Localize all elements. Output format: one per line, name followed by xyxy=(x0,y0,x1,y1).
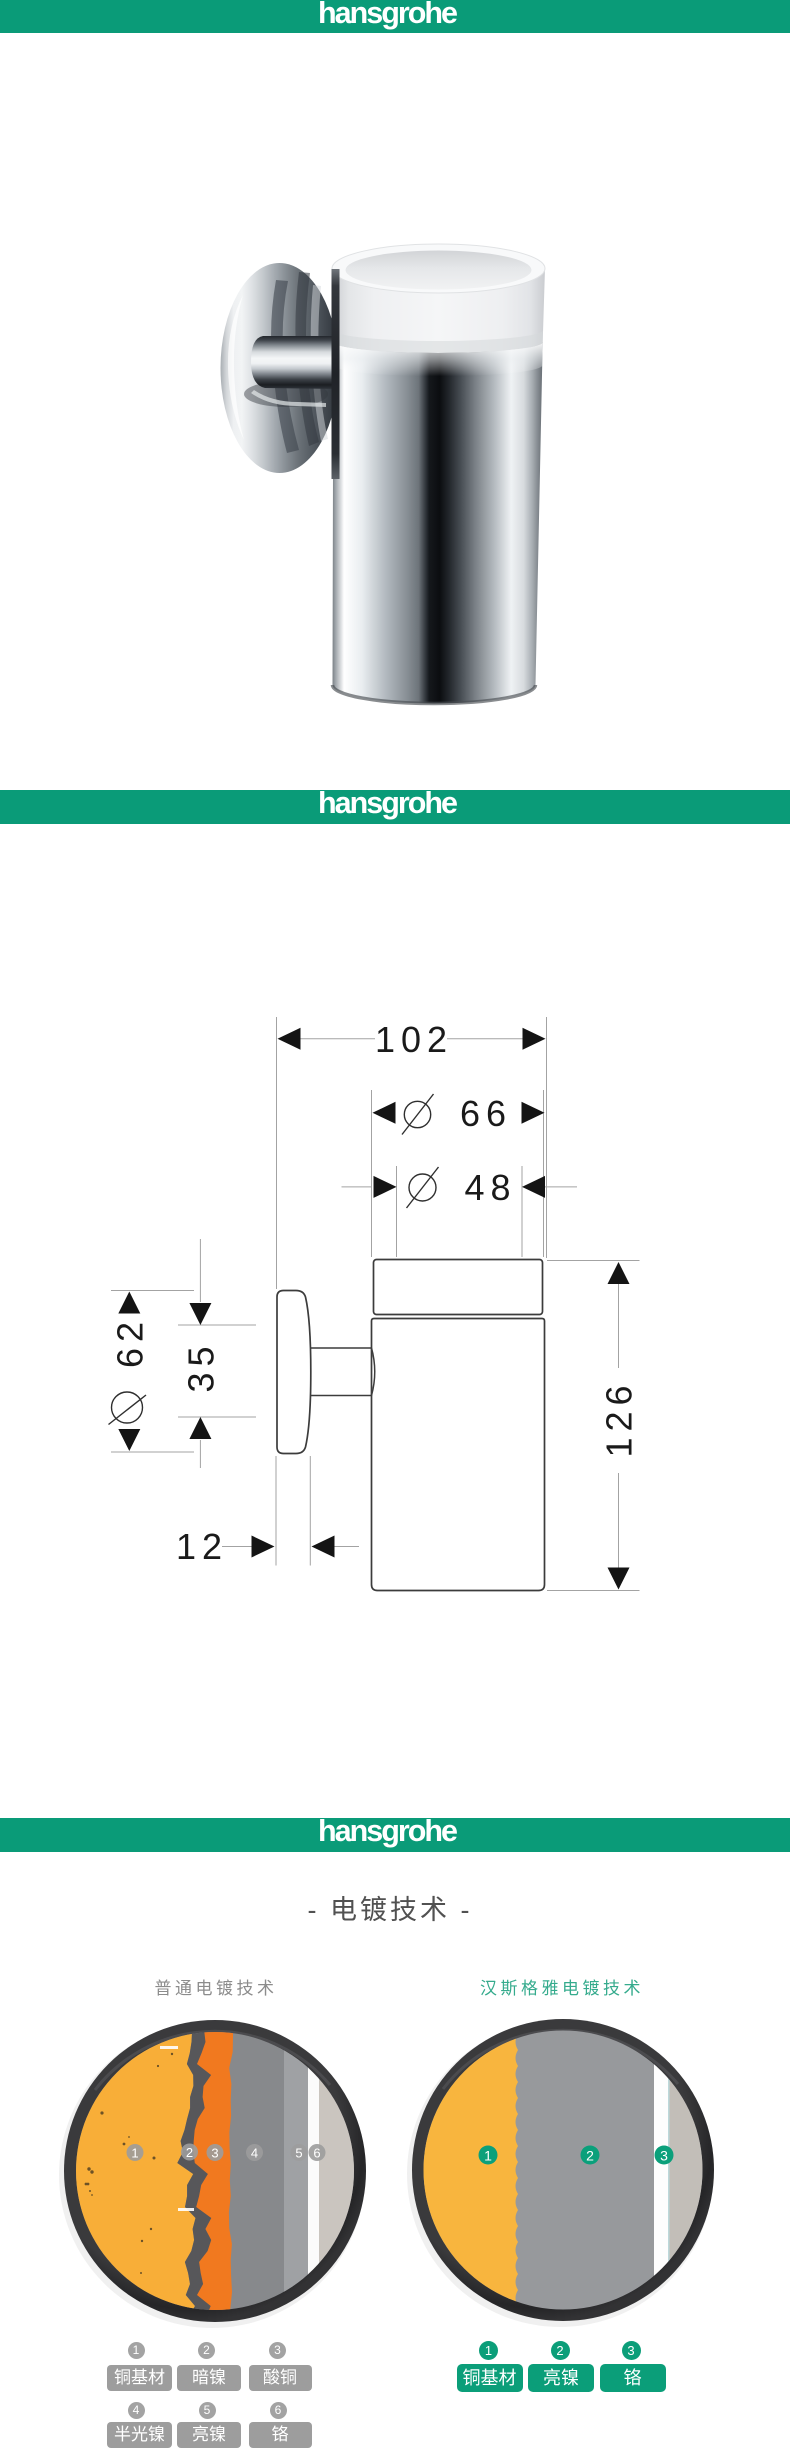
126 dim line upper xyxy=(618,1284,620,1368)
12 arrow pointing right xyxy=(252,1536,275,1558)
white chrome band xyxy=(654,2019,668,2321)
35 tick top xyxy=(178,1324,256,1326)
48 dim line left xyxy=(342,1186,372,1188)
gray label 暗镍 xyxy=(177,2365,241,2391)
gray label 酸铜 xyxy=(249,2365,312,2391)
102 arrow left xyxy=(278,1028,301,1050)
disc bright sliver xyxy=(311,285,328,441)
legend left group xyxy=(0,2342,790,2452)
green badge 2 xyxy=(581,2146,600,2165)
cup body outline xyxy=(372,1319,545,1591)
badge 6 xyxy=(309,2144,326,2161)
gray badge 2 xyxy=(198,2342,215,2359)
svg-text:12: 12 xyxy=(176,1526,228,1567)
66 arrow right xyxy=(522,1102,545,1124)
66 arrow left xyxy=(373,1102,396,1124)
layer 5 lighter gray xyxy=(284,2020,309,2322)
126 extension bottom xyxy=(547,1590,640,1592)
mounting arm xyxy=(251,336,340,389)
layer 1 copper base (amber) xyxy=(65,2020,196,2320)
white dash mid xyxy=(178,2208,194,2211)
48 extension line right xyxy=(521,1166,523,1257)
svg-text:126: 126 xyxy=(599,1379,640,1457)
right subtitle xyxy=(412,1974,712,1999)
12 dim line right xyxy=(334,1546,359,1548)
base gray layer xyxy=(413,2019,714,2321)
gray badge 3 xyxy=(269,2342,286,2359)
126 arrow up xyxy=(608,1262,630,1284)
green label 亮镍 xyxy=(528,2364,594,2392)
35 arrow up xyxy=(189,1417,211,1439)
right circle soft shadow xyxy=(407,2021,713,2327)
126 extension top xyxy=(547,1260,640,1262)
layer 6b beige xyxy=(319,2020,355,2322)
svg-text:1: 1 xyxy=(484,2147,492,2163)
badge 4 xyxy=(246,2144,263,2161)
126 arrow down xyxy=(608,1568,630,1590)
right circle: hansgrohe plating xyxy=(400,2005,714,2335)
48 dim line right xyxy=(545,1186,577,1188)
layer 4 base gray xyxy=(65,2020,365,2322)
copper base amber xyxy=(400,2005,518,2335)
arm top line xyxy=(311,1347,372,1349)
gray badge 6 xyxy=(270,2402,287,2419)
svg-text:2: 2 xyxy=(586,2147,594,2163)
gray badge 5 xyxy=(199,2402,216,2419)
green badge 3 xyxy=(622,2341,641,2360)
wall disc xyxy=(221,263,339,473)
top green bar 1 xyxy=(0,0,790,33)
green badge 1 xyxy=(479,2146,498,2165)
12 extension line left xyxy=(275,1456,277,1566)
left subtitle xyxy=(66,1974,366,1999)
48 arrow left (points right) xyxy=(374,1176,397,1198)
arm bottom line xyxy=(311,1395,372,1397)
diameter symbol for 62 xyxy=(112,1392,143,1423)
gray label 铬 xyxy=(249,2422,312,2448)
35 arrow down xyxy=(189,1303,211,1325)
gray label 亮镍 xyxy=(177,2422,241,2448)
svg-text:62: 62 xyxy=(109,1316,150,1368)
102 arrow right xyxy=(523,1028,546,1050)
left circle: ordinary plating xyxy=(59,2020,366,2328)
green label 铬 xyxy=(600,2364,666,2392)
layer 3 acid copper (orange) xyxy=(193,2020,233,2320)
62 arrow down xyxy=(118,1429,140,1451)
green bar 3 xyxy=(0,1818,790,1852)
35 line upper xyxy=(199,1239,201,1302)
disc dark streak 2 xyxy=(295,272,319,446)
chrome top bright zone xyxy=(333,342,542,376)
35 line lower xyxy=(199,1440,201,1468)
102 extension line right xyxy=(546,1017,548,1258)
svg-text:2: 2 xyxy=(186,2145,193,2160)
chrome body xyxy=(333,342,543,703)
section title xyxy=(0,1888,785,1927)
svg-text:66: 66 xyxy=(460,1093,512,1134)
gray badge 4 xyxy=(128,2402,145,2419)
svg-text:102: 102 xyxy=(375,1019,453,1060)
layer 2 dark nickel band xyxy=(177,2020,213,2320)
svg-text:3: 3 xyxy=(211,2145,218,2160)
badge 1 xyxy=(127,2144,144,2161)
svg-text:4: 4 xyxy=(251,2145,258,2160)
glass lower shading xyxy=(333,330,543,353)
glass rim xyxy=(332,244,545,293)
arm shadow on disc xyxy=(244,381,328,407)
gray label 半光镍 xyxy=(107,2422,172,2448)
48 extension line left xyxy=(396,1166,398,1257)
left circle soft shadow xyxy=(59,2022,365,2328)
svg-text:3: 3 xyxy=(660,2147,668,2163)
gray label 铜基材 xyxy=(107,2365,172,2391)
layer 6 white band xyxy=(308,2020,319,2322)
gray badge 1 xyxy=(128,2342,145,2359)
diameter symbol for 66 xyxy=(404,1101,430,1127)
12 extension line right xyxy=(309,1456,311,1566)
faint blue line xyxy=(668,2019,670,2321)
badge 2 xyxy=(181,2144,198,2161)
svg-text:35: 35 xyxy=(180,1340,221,1392)
svg-text:5: 5 xyxy=(295,2145,302,2160)
126 dim line lower xyxy=(618,1473,620,1568)
left ring top highlight xyxy=(95,2031,330,2090)
66 extension line left xyxy=(371,1090,373,1257)
badge 5 xyxy=(291,2144,308,2161)
cup left dark stripe xyxy=(332,269,340,479)
wall plate outline xyxy=(277,1291,311,1454)
62 tick top xyxy=(111,1290,194,1292)
12 arrow pointing left xyxy=(312,1536,335,1558)
svg-text:48: 48 xyxy=(464,1167,516,1208)
svg-text:1: 1 xyxy=(131,2145,138,2160)
12 dim line left xyxy=(222,1546,253,1548)
arm bright under-reflection on disc xyxy=(251,390,326,407)
arm end bulge xyxy=(372,1348,375,1396)
green label 铜基材 xyxy=(457,2364,523,2392)
diameter symbol for 48 xyxy=(409,1174,436,1201)
right circle outer ring xyxy=(412,2019,714,2321)
svg-text:6: 6 xyxy=(313,2145,320,2160)
102 extension line left xyxy=(276,1017,278,1289)
green badge 1 xyxy=(479,2341,498,2360)
cup glass section outline xyxy=(374,1260,543,1315)
102 dim line right xyxy=(447,1038,539,1040)
glass inner xyxy=(346,251,532,290)
48 arrow right (points left) xyxy=(522,1176,545,1198)
right beige edge xyxy=(668,2019,708,2321)
green bar 2 xyxy=(0,790,790,824)
35 tick bottom xyxy=(178,1416,256,1418)
102 dim line left xyxy=(284,1038,375,1040)
copper speckles xyxy=(85,2053,174,2274)
badge 3 xyxy=(207,2144,224,2161)
glass body xyxy=(332,269,545,354)
chrome bottom edge xyxy=(333,685,536,703)
disc dark streak 1 xyxy=(271,280,299,453)
62 tick bottom xyxy=(111,1451,194,1453)
left circle outer ring xyxy=(64,2020,366,2322)
66 extension line right xyxy=(543,1090,545,1257)
62 arrow up xyxy=(118,1292,140,1314)
green badge 3 xyxy=(655,2146,674,2165)
green badge 2 xyxy=(551,2341,570,2360)
white dash top xyxy=(160,2046,178,2049)
disc top-left inner highlight xyxy=(228,295,244,440)
right ring top highlight xyxy=(443,2030,678,2089)
